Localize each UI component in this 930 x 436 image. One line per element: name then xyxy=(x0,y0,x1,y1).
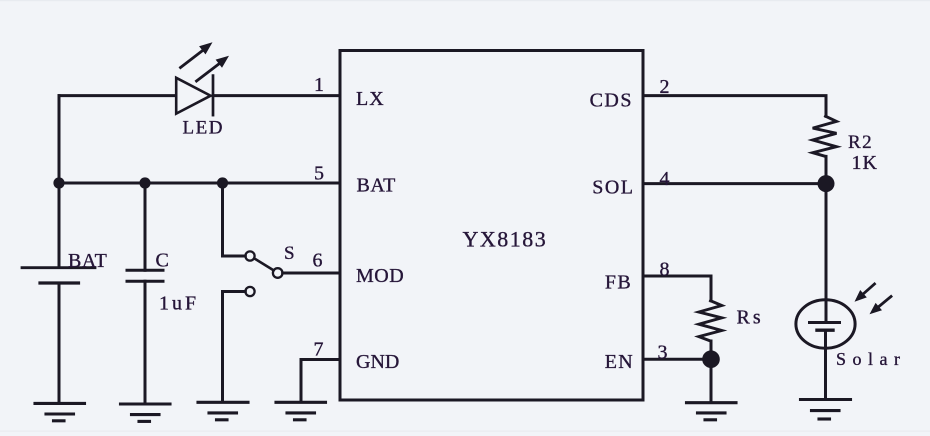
ground (battery) xyxy=(35,403,85,420)
LED arrow 1 xyxy=(181,42,213,67)
svg-text:SOL: SOL xyxy=(592,176,634,198)
svg-text:FB: FB xyxy=(605,272,632,294)
solar cell internal negative plate xyxy=(817,329,833,332)
switch S pole contact xyxy=(273,268,283,278)
svg-text:5: 5 xyxy=(314,162,324,184)
battery BAT negative plate xyxy=(40,281,79,284)
wire solar cell to ground xyxy=(824,330,827,397)
wire pin 8 FB to Rs xyxy=(643,276,711,301)
switch S top contact xyxy=(245,251,254,260)
svg-text:2: 2 xyxy=(660,76,670,98)
solar arrow 2 xyxy=(870,297,892,315)
wire EN node to ground xyxy=(710,359,713,402)
resistor Rs zigzag xyxy=(699,301,722,341)
wire battery to ground xyxy=(58,283,61,403)
node junction EN/Rs xyxy=(702,350,720,368)
node junction at rail/BAT xyxy=(53,177,64,188)
solar cell internal positive plate xyxy=(810,321,840,324)
wire pin 4 SOL xyxy=(643,182,826,185)
wire pin 3 EN xyxy=(643,358,711,361)
svg-text:LX: LX xyxy=(356,88,385,110)
wire Rs to EN node xyxy=(710,341,713,359)
svg-text:3: 3 xyxy=(658,342,668,364)
svg-text:8: 8 xyxy=(660,259,670,281)
capacitor C top plate xyxy=(127,269,163,272)
ground (pin 7) xyxy=(276,402,326,420)
svg-text:EN: EN xyxy=(605,351,634,373)
wire pin 7 GND xyxy=(301,360,340,403)
svg-text:Rs: Rs xyxy=(737,307,764,329)
svg-text:4: 4 xyxy=(660,168,670,190)
svg-text:LED: LED xyxy=(183,118,224,139)
wire BAT bus to pin 5 xyxy=(59,182,340,185)
wire capacitor to ground xyxy=(144,281,147,404)
ground (switch) xyxy=(198,402,248,420)
resistor R2 zigzag xyxy=(813,116,837,156)
switch S arm xyxy=(254,258,273,270)
svg-text:1K: 1K xyxy=(852,152,878,174)
LED arrow 2 xyxy=(197,56,230,81)
svg-text:1: 1 xyxy=(314,74,324,96)
wire left rail xyxy=(58,96,61,267)
solar arrow 1 xyxy=(855,284,875,302)
switch S lower contact xyxy=(245,287,254,296)
capacitor C bottom plate xyxy=(127,280,163,283)
svg-text:6: 6 xyxy=(313,250,323,272)
battery BAT positive plate xyxy=(22,266,95,269)
solar cell BT1 circle xyxy=(796,300,855,348)
wire LED cathode to pin 1 LX xyxy=(213,94,340,97)
svg-text:7: 7 xyxy=(314,339,324,361)
wire lower contact to ground xyxy=(223,292,246,403)
svg-text:BAT: BAT xyxy=(357,174,396,196)
svg-text:MOD: MOD xyxy=(356,265,404,287)
LED D1 triangle xyxy=(176,78,210,114)
LED D1 cathode bar xyxy=(212,76,215,116)
node junction SOL/R2/solar xyxy=(818,175,835,192)
svg-text:GND: GND xyxy=(356,351,399,373)
svg-text:Solar: Solar xyxy=(836,349,907,369)
node junction at switch xyxy=(217,177,228,188)
svg-text:BAT: BAT xyxy=(68,250,107,272)
wire SOL node to solar cell xyxy=(825,184,828,322)
node junction at capacitor xyxy=(139,177,150,188)
ground (EN) xyxy=(687,403,737,420)
svg-text:S: S xyxy=(284,243,295,264)
wire switch feed from BAT junction xyxy=(223,183,246,256)
svg-text:C: C xyxy=(156,250,169,272)
ground (capacitor) xyxy=(121,404,171,421)
wire pin 2 CDS to R2 xyxy=(643,96,826,117)
svg-text:R2: R2 xyxy=(848,132,873,153)
wire LED anode from left rail xyxy=(59,94,176,97)
wire pole to pin 6 MOD xyxy=(283,272,340,275)
svg-text:1uF: 1uF xyxy=(159,293,199,315)
wire R2 to SOL node xyxy=(825,156,828,183)
wire capacitor top lead xyxy=(144,183,147,270)
svg-text:CDS: CDS xyxy=(590,89,633,111)
ground (solar) xyxy=(801,400,851,420)
op-amp U1 YX8183 IC body xyxy=(340,51,643,401)
svg-text:YX8183: YX8183 xyxy=(463,227,548,252)
